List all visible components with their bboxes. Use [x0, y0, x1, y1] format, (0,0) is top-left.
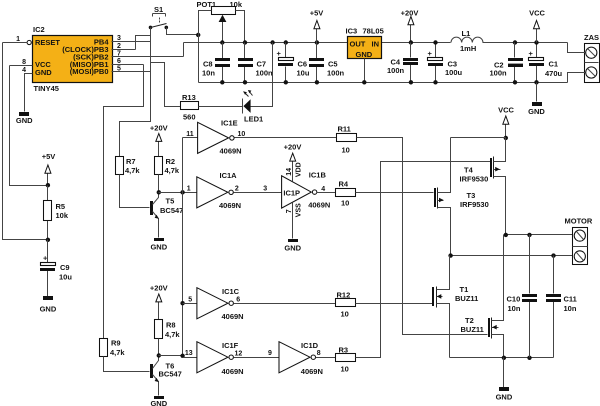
wire PB1 to R13 [151, 63, 181, 107]
svg-text:IC2: IC2 [33, 25, 45, 34]
node T5 collector / R2 [157, 190, 161, 194]
svg-text:4,7k: 4,7k [125, 166, 140, 175]
voltage regulator IC3 78L05 [346, 27, 384, 60]
svg-text:4069N: 4069N [308, 200, 330, 209]
svg-text:12: 12 [235, 350, 243, 357]
IC2 pin 2 PB3 lead [112, 43, 136, 50]
svg-text:T2: T2 [465, 316, 474, 325]
connector ZAS power terminal [584, 33, 600, 83]
svg-text:7: 7 [286, 209, 293, 213]
+5V supply arrow [310, 9, 324, 43]
VCC supply arrow H-bridge [498, 106, 514, 138]
svg-text:5: 5 [188, 296, 192, 303]
IC1P VDD pin 14 to +20V [284, 142, 303, 181]
svg-text:4,7k: 4,7k [110, 348, 125, 357]
svg-text:3: 3 [263, 186, 267, 193]
wire S1 left contact to PB3/PB4 [136, 36, 151, 50]
svg-text:BUZ11: BUZ11 [461, 325, 484, 334]
svg-text:GND: GND [150, 243, 167, 252]
ground symbol below T6 [150, 396, 167, 406]
node +5V / R5 top [46, 183, 50, 187]
IC2 pin 3 PB4 lead [112, 35, 151, 42]
svg-text:5: 5 [117, 65, 121, 72]
svg-text:10: 10 [341, 199, 349, 208]
+20V supply arrow above R2 [150, 124, 168, 157]
svg-text:GND: GND [40, 305, 57, 314]
svg-text:4069N: 4069N [222, 367, 244, 376]
svg-text:GND: GND [284, 244, 301, 253]
wire bus to IC1E input [183, 137, 198, 139]
node IC3 GND / bottom bus [362, 80, 366, 84]
wire R9 bottom to T6 base [104, 357, 150, 372]
wire T5 collector node to IC1A input [159, 192, 197, 194]
node LED feed on top bus [270, 40, 274, 44]
capacitor C3 100u electrolytic [428, 43, 463, 83]
wire IC1P output to R4 [317, 192, 336, 194]
VCC supply arrow top right [529, 9, 545, 43]
svg-text:C8: C8 [203, 59, 213, 68]
svg-text:+: + [428, 49, 433, 58]
+5V supply arrow left column [42, 152, 56, 186]
svg-text:1: 1 [16, 36, 20, 43]
svg-text:IN: IN [372, 39, 380, 48]
inverter IC1C [188, 287, 243, 321]
svg-text:+: + [43, 254, 48, 263]
svg-text:R5: R5 [56, 202, 66, 211]
wire VCC rail to T3 source [451, 137, 506, 139]
switch S1 [149, 5, 168, 29]
svg-text:IC1D: IC1D [301, 341, 319, 350]
transistor T3 IRF9530 [434, 138, 489, 256]
transistor T4 IRF9530 [460, 138, 506, 235]
capacitor C7 100n [238, 43, 273, 83]
svg-text:GND: GND [356, 50, 373, 59]
svg-text:C6: C6 [298, 59, 308, 68]
capacitor C2 100n [490, 43, 524, 83]
wire motor line A [506, 234, 574, 236]
inverter IC1D [268, 341, 323, 376]
connector MOTOR [565, 217, 593, 265]
svg-text:IC1C: IC1C [222, 287, 240, 296]
svg-text:+5V: +5V [310, 9, 324, 18]
svg-text:T4: T4 [464, 165, 474, 174]
svg-text:470u: 470u [545, 69, 563, 78]
svg-text:C10: C10 [507, 294, 521, 303]
svg-text:GND: GND [150, 399, 167, 406]
capacitor C1 470u electrolytic [529, 43, 563, 83]
svg-text:IC1E: IC1E [221, 118, 238, 127]
IC2 pin 7 PB2 lead [112, 50, 184, 57]
svg-text:100n: 100n [256, 69, 274, 78]
svg-text:GND: GND [16, 116, 33, 125]
transistor T2 BUZ11 [461, 235, 504, 358]
svg-text:R7: R7 [126, 157, 136, 166]
resistor R7 4,7k [116, 157, 141, 176]
svg-text:100u: 100u [445, 68, 463, 77]
wire POT1 low end down to bottom bus [198, 35, 200, 83]
wire IC3 GND pin to bottom bus [364, 59, 366, 83]
svg-text:R2: R2 [166, 157, 176, 166]
wire T6 collector node to input bus [159, 355, 183, 357]
node input bus at IC1A [180, 190, 184, 194]
wire S1 right contact to POT1 low end [167, 28, 199, 35]
IC1P VSS pin 7 to ground [284, 203, 302, 253]
capacitor C8 10n [202, 43, 230, 83]
svg-text:10: 10 [341, 365, 349, 374]
potentiometer POT1 10k [197, 0, 245, 42]
svg-text:100n: 100n [490, 68, 508, 77]
svg-text:2: 2 [235, 186, 239, 193]
capacitor C11 10n [546, 256, 577, 358]
wire PB0 to R7 [120, 27, 151, 156]
node C5 bottom [315, 80, 319, 84]
ground symbol below C1 [528, 83, 545, 117]
svg-text:4069N: 4069N [222, 312, 244, 321]
node T2 source / ground rail [502, 356, 506, 360]
svg-text:+: + [277, 49, 282, 58]
wire motor line B [451, 255, 574, 257]
wire top bus to ZAS pin 1 [568, 43, 586, 53]
svg-text:4,7k: 4,7k [165, 166, 180, 175]
wire IC1C output to R12 [234, 303, 336, 305]
transistor T1 BUZ11 [432, 256, 478, 358]
svg-text:R11: R11 [338, 125, 351, 134]
wire R11 to T2 gate [357, 138, 488, 335]
svg-text:R8: R8 [166, 321, 176, 330]
svg-text:11: 11 [186, 131, 194, 138]
svg-text:4069N: 4069N [301, 367, 323, 376]
svg-text:L1: L1 [462, 29, 471, 38]
wire R12 to T1 gate [356, 303, 433, 305]
svg-text:C5: C5 [328, 59, 338, 68]
svg-text:10n: 10n [564, 304, 577, 313]
svg-text:IC1P: IC1P [283, 188, 300, 197]
ground symbol H-bridge [496, 358, 513, 402]
svg-text:10n: 10n [508, 304, 521, 313]
capacitor C4 100n [387, 43, 418, 83]
resistor R12 10 [336, 291, 356, 319]
inductor L1 1mH [451, 29, 483, 53]
inverter IC1F [185, 341, 244, 376]
svg-text:IC1F: IC1F [222, 341, 239, 350]
svg-text:+20V: +20V [401, 9, 419, 18]
resistor R4 10 [336, 179, 356, 207]
resistor R8 4,7k [155, 320, 181, 356]
wire VCC net: down to +5V node [10, 66, 48, 186]
node input bus at IC1C [180, 301, 184, 305]
svg-text:4069N: 4069N [220, 146, 242, 155]
svg-text:6: 6 [236, 296, 240, 303]
capacitor C9 10u electrolytic [40, 240, 72, 297]
wire R3 to T4 gate (long vertical) [356, 162, 491, 358]
resistor R5 10k [44, 186, 69, 240]
svg-text:T3: T3 [467, 191, 476, 200]
node C2 top [513, 40, 517, 44]
svg-text:GND: GND [35, 68, 52, 77]
inverter IC1P power symbol [282, 170, 331, 209]
svg-text:4069N: 4069N [219, 201, 241, 210]
wire bus to IC1F input [183, 357, 197, 359]
node C7 bottom [243, 80, 247, 84]
wire bus to IC1C input [183, 303, 197, 305]
transistor T6 BC547 [150, 356, 182, 396]
IC2 pin 5 PB0 lead [112, 65, 151, 72]
node wiper bus / C8 [220, 40, 224, 44]
svg-text:(MOSI)PB0: (MOSI)PB0 [70, 67, 109, 76]
wire top supply bus [184, 42, 568, 44]
node C11 / motor B [551, 253, 555, 257]
IC2 pin 4 GND lead [22, 67, 32, 112]
svg-text:BC547: BC547 [159, 370, 182, 379]
svg-text:BC547: BC547 [160, 206, 183, 215]
node C10 / ground rail [527, 356, 531, 360]
svg-text:560: 560 [183, 113, 196, 122]
inverter IC1E [186, 118, 245, 155]
svg-text:4: 4 [22, 67, 26, 74]
node C1 top / VCC [534, 40, 538, 44]
wire ground rail bottom right [450, 357, 554, 359]
+20V supply arrow at IC3 input [401, 9, 419, 43]
svg-text:7: 7 [117, 50, 121, 57]
svg-text:BUZ11: BUZ11 [455, 294, 478, 303]
svg-text:14: 14 [286, 168, 293, 176]
svg-text:VDD: VDD [295, 162, 302, 177]
svg-text:10n: 10n [202, 69, 215, 78]
svg-text:R9: R9 [111, 339, 121, 348]
wire IC1F output to IC1D input [234, 357, 279, 359]
wire bottom bus to ZAS pin 2 [568, 73, 586, 83]
svg-text:1mH: 1mH [460, 44, 476, 53]
wire R4 to T3 gate [356, 192, 434, 194]
svg-text:S1: S1 [154, 5, 163, 14]
svg-text:100n: 100n [327, 69, 345, 78]
transistor T5 BC547 [150, 193, 183, 238]
svg-text:1: 1 [187, 186, 191, 193]
node C7 top [243, 40, 247, 44]
wire RESET net: left edge down to R5/C9 node [3, 43, 48, 240]
svg-text:10: 10 [341, 310, 349, 319]
svg-text:10: 10 [342, 146, 350, 155]
svg-text:IC1A: IC1A [220, 171, 238, 180]
IC2 ATtiny45 microcontroller [33, 25, 113, 93]
node C5 / +5V [315, 40, 319, 44]
svg-text:C9: C9 [60, 263, 70, 272]
wire PB2 up to wiper bus [183, 43, 185, 57]
svg-text:8: 8 [317, 350, 321, 357]
svg-text:ZAS: ZAS [584, 33, 599, 42]
svg-text:+5V: +5V [42, 152, 56, 161]
svg-text:10u: 10u [59, 273, 72, 282]
svg-text:VCC: VCC [498, 106, 514, 115]
node R5 bottom / C9 / RESET [46, 238, 50, 242]
svg-text:IRF9530: IRF9530 [460, 200, 489, 209]
wire IC1A output to IC1P input [234, 192, 282, 194]
node C1 bottom [534, 80, 538, 84]
resistor R2 4,7k [155, 157, 180, 193]
svg-text:8: 8 [22, 59, 26, 66]
wire R7 bottom to T5 base [120, 175, 150, 208]
svg-text:6: 6 [117, 58, 121, 65]
svg-text:C4: C4 [391, 57, 401, 66]
svg-text:T1: T1 [460, 285, 469, 294]
wire IC1D output to R3 [316, 357, 336, 359]
node C4 bottom [409, 80, 413, 84]
svg-text:+20V: +20V [284, 142, 302, 151]
svg-text:IC1B: IC1B [309, 170, 327, 179]
svg-text:10u: 10u [297, 69, 310, 78]
svg-text:IRF9530: IRF9530 [460, 174, 489, 183]
svg-text:C1: C1 [549, 59, 559, 68]
node C8 bottom [220, 80, 224, 84]
node T6 collector / R8 [157, 353, 161, 357]
node C3 top [433, 40, 437, 44]
ground symbol below IC2 [16, 112, 33, 125]
svg-text:+: + [529, 49, 534, 58]
wire inverter input bus vertical [182, 138, 184, 357]
wire IC1E output to R11 [235, 137, 337, 139]
svg-text:C11: C11 [564, 294, 577, 303]
svg-text:4,7k: 4,7k [165, 330, 180, 339]
capacitor C10 10n [507, 235, 538, 358]
node T3 drain / T1 drain / motor B [448, 253, 452, 257]
ground symbol below C9 [40, 296, 57, 314]
svg-text:10k: 10k [56, 211, 69, 220]
svg-text:13: 13 [185, 350, 193, 357]
svg-text:R4: R4 [339, 179, 349, 188]
node T4 drain / motor A [504, 233, 508, 237]
svg-text:MOTOR: MOTOR [565, 217, 593, 226]
svg-text:RESET: RESET [35, 38, 60, 47]
resistor R9 4,7k [100, 339, 126, 357]
node input bus at IC1F [180, 354, 184, 358]
inverter IC1A [187, 171, 268, 210]
IC2 pin 8 VCC lead [10, 59, 33, 66]
wire PB1 to R9 (long vertical) [104, 65, 144, 339]
IC2 pin 6 PB1 lead [112, 58, 144, 65]
+20V supply arrow above R8 [150, 284, 168, 320]
node C6 bottom [284, 80, 288, 84]
resistor R3 10 [336, 346, 356, 374]
resistor R11 10 [337, 125, 357, 155]
IC2 pin 1 RESET lead with inversion circle [3, 36, 32, 45]
svg-text:4: 4 [321, 186, 325, 193]
resistor R13 560 [181, 93, 243, 121]
svg-text:78L05: 78L05 [363, 27, 384, 36]
LED1 [243, 43, 273, 124]
svg-text:R13: R13 [182, 93, 196, 102]
svg-text:+20V: +20V [150, 284, 168, 293]
svg-text:100n: 100n [387, 66, 405, 75]
svg-text:9: 9 [268, 350, 272, 357]
svg-text:LED1: LED1 [244, 115, 263, 124]
node C3 bottom [433, 80, 437, 84]
wire bottom ground bus [199, 82, 568, 84]
svg-text:VCC: VCC [529, 9, 545, 18]
svg-text:VSS: VSS [295, 203, 302, 217]
svg-text:3: 3 [117, 35, 121, 42]
capacitor C5 100n [309, 43, 345, 83]
node C2 bottom [513, 80, 517, 84]
capacitor C6 10u electrolytic [277, 43, 310, 83]
svg-text:TINY45: TINY45 [34, 84, 59, 93]
svg-text:GND: GND [496, 393, 513, 402]
svg-text:GND: GND [528, 107, 545, 116]
node VCC / T4 source [504, 136, 508, 140]
svg-text:IC3: IC3 [346, 27, 358, 36]
ground symbol below T5 [150, 238, 167, 252]
svg-text:T5: T5 [166, 197, 175, 206]
svg-text:2: 2 [117, 43, 121, 50]
node junction POT1-low / S1 [196, 33, 200, 37]
node C10 / motor A [527, 233, 531, 237]
svg-text:OUT: OUT [350, 39, 366, 48]
node C4 / +20V [409, 40, 413, 44]
svg-text:+20V: +20V [150, 124, 168, 133]
node C6 top [284, 40, 288, 44]
svg-text:C7: C7 [257, 59, 267, 68]
